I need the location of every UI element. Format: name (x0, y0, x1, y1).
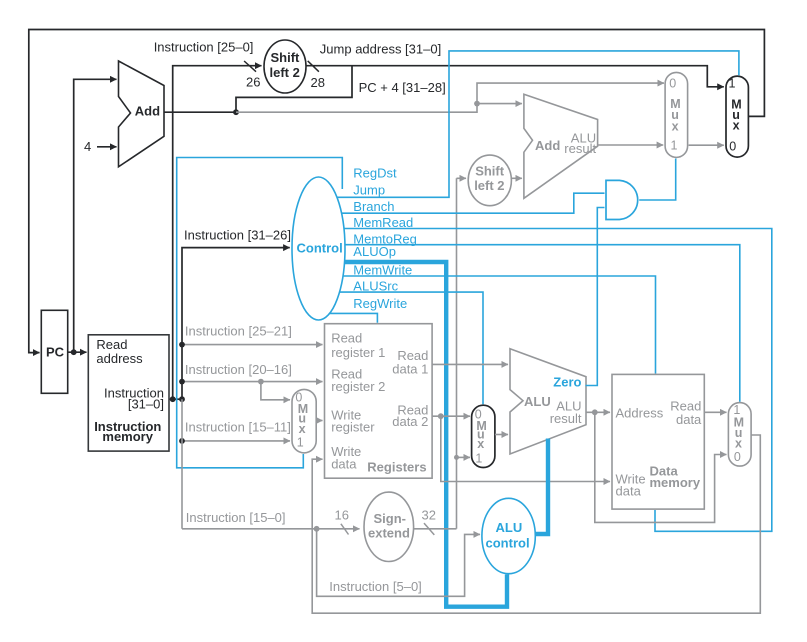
svg-text:left 2: left 2 (270, 65, 300, 80)
svg-text:Read: Read (331, 331, 362, 346)
svg-text:memory: memory (650, 475, 701, 490)
bus slash 28 (308, 61, 319, 72)
wire: sign-extend output (414, 528, 457, 530)
svg-text:address: address (96, 351, 143, 366)
svg-text:Control: Control (297, 240, 343, 255)
svg-text:MemWrite: MemWrite (353, 263, 412, 278)
control output MemtoReg (345, 245, 740, 402)
wire: sign-extend up to shift-left-2 (457, 145, 724, 529)
control output ALUOp (2-bit, thick) (345, 262, 507, 607)
ALU control oval (482, 498, 535, 573)
bus slash 16 (341, 524, 349, 535)
svg-text:MemRead: MemRead (353, 215, 413, 230)
wire: PC to instruction memory read address (68, 351, 87, 353)
svg-text:ALUSrc: ALUSrc (353, 279, 398, 294)
wire: PC up to Add input (74, 79, 117, 352)
svg-text:Branch: Branch (353, 199, 394, 214)
svg-text:0: 0 (669, 77, 676, 91)
wire: Instruction[15-11] to write-reg mux input 1 (182, 440, 290, 442)
wire: Instruction[20-16] to read register 2 (182, 381, 323, 383)
svg-text:ALU: ALU (496, 520, 523, 535)
wire: instruction bus down segment (181, 399, 183, 529)
svg-text:Zero: Zero (553, 374, 581, 389)
svg-text:[31–0]: [31–0] (128, 396, 164, 411)
wire: AND output to branch mux select (639, 159, 676, 201)
bus slash 26 (244, 61, 256, 72)
wire: Zero to AND gate (586, 208, 605, 386)
wire: ALU control output to ALU (thick) (535, 439, 548, 535)
registers box (325, 324, 433, 479)
svg-text:x: x (733, 119, 740, 133)
svg-text:Instruction [31–26]: Instruction [31–26] (184, 228, 291, 243)
svg-text:result: result (564, 141, 596, 156)
bus slash 32 (424, 523, 434, 535)
adder Add (PC+4) (119, 61, 165, 167)
svg-text:data: data (676, 412, 702, 427)
control unit oval (292, 177, 345, 320)
svg-text:data 2: data 2 (392, 414, 428, 429)
AND gate (branch) (606, 180, 638, 219)
svg-text:Read: Read (96, 337, 127, 352)
control output Jump (337, 51, 739, 197)
svg-text:28: 28 (311, 75, 325, 90)
svg-text:32: 32 (422, 508, 436, 523)
svg-text:x: x (672, 119, 679, 133)
svg-text:x: x (477, 437, 484, 451)
wire: memtoreg mux output back to registers write data (312, 435, 760, 613)
wire: read data 2 down to data memory write data (441, 416, 610, 481)
svg-text:data 1: data 1 (392, 361, 428, 376)
control output MemRead (344, 229, 772, 532)
wire: ALU result to data memory address (586, 411, 610, 413)
svg-text:ALU: ALU (524, 394, 551, 409)
wire: ALU mux output to ALU (495, 434, 508, 436)
svg-text:PC + 4 [31–28]: PC + 4 [31–28] (359, 80, 446, 95)
svg-text:register: register (331, 419, 375, 434)
svg-text:ALUOp: ALUOp (353, 244, 396, 259)
instruction memory box (88, 335, 169, 451)
wire: instruction memory output stub (169, 398, 182, 400)
wire: Instruction[5-0] to ALU control (317, 529, 480, 597)
svg-text:control: control (486, 536, 530, 551)
wire: sign-extend branch to ALU mux input 1 (457, 456, 471, 458)
wire: jump address to jump mux (306, 66, 724, 87)
svg-text:PC: PC (46, 345, 65, 360)
svg-text:1: 1 (671, 138, 678, 152)
wire: shift-left-2 to branch adder (511, 177, 522, 179)
control output ALUSrc (340, 292, 484, 404)
ALU (510, 349, 586, 454)
svg-text:4: 4 (84, 139, 91, 154)
svg-text:RegWrite: RegWrite (353, 296, 407, 311)
node: PC+4 junction (233, 109, 239, 115)
svg-text:result: result (550, 411, 582, 426)
svg-text:RegDst: RegDst (353, 166, 397, 181)
PC register (41, 310, 67, 393)
node: PC+4 branch junction (474, 101, 480, 107)
svg-text:memory: memory (102, 429, 153, 444)
svg-text:Add: Add (535, 138, 560, 153)
wire: jump-mux output to PC (top/left frame) (29, 30, 765, 353)
wire: PC+4[31-28] up to jump address merge (236, 66, 352, 113)
svg-text:16: 16 (335, 507, 349, 522)
control output RegWrite (330, 313, 378, 322)
node: bus junctions (170, 396, 176, 402)
svg-text:register 2: register 2 (331, 379, 385, 394)
svg-text:Add: Add (135, 104, 160, 119)
svg-text:extend: extend (368, 526, 410, 541)
svg-text:left 2: left 2 (474, 178, 504, 193)
data memory box (612, 374, 704, 509)
wire: instruction[31-26] into control (182, 248, 290, 400)
wire: Add output to junction (164, 111, 236, 113)
wire: constant 4 into Add (97, 146, 117, 148)
svg-text:data: data (616, 484, 642, 499)
svg-text:Instruction [5–0]: Instruction [5–0] (329, 579, 422, 594)
wire: ALU result bypass to memtoreg mux input 0 (595, 412, 727, 522)
shifter Shift left 2 (jump) (264, 40, 306, 93)
svg-text:0: 0 (734, 450, 741, 464)
control output Branch (341, 193, 604, 213)
svg-text:Instruction [20–16]: Instruction [20–16] (185, 362, 292, 377)
wire: read data to memtoreg mux input 1 (704, 411, 726, 413)
node: PC output junction (71, 349, 77, 355)
svg-text:Jump: Jump (353, 182, 385, 197)
svg-text:x: x (299, 422, 306, 436)
svg-text:Shift: Shift (475, 164, 505, 179)
svg-text:data: data (331, 457, 357, 472)
svg-text:Instruction [25–0]: Instruction [25–0] (154, 40, 254, 55)
mux: memtoreg mux (1/0) (728, 403, 751, 467)
wire: read data 1 to ALU (432, 363, 508, 365)
svg-text:Address: Address (616, 405, 664, 420)
svg-text:26: 26 (246, 74, 260, 89)
svg-text:1: 1 (475, 452, 482, 466)
wire: Instruction[20-16] branch down to write-reg mux input 0 (261, 382, 290, 400)
wire: Instruction[25-0] from bus up to shift-left-2 (173, 66, 262, 400)
mux: ALU source mux (0/1) (472, 405, 495, 467)
wire: branch mux output to jump mux (689, 144, 724, 146)
control output MemWrite (343, 276, 656, 374)
mux: write register mux (0/1) (292, 389, 316, 453)
wire: branch adder output to branch mux (598, 144, 664, 146)
svg-text:1: 1 (729, 76, 736, 90)
wire: read data 2 to ALU mux input 0 (432, 415, 470, 417)
svg-text:register 1: register 1 (331, 345, 385, 360)
mux: jump mux (1/0) (726, 76, 748, 157)
svg-text:Instruction [15–0]: Instruction [15–0] (186, 510, 286, 525)
svg-text:Instruction [25–21]: Instruction [25–21] (185, 324, 292, 339)
svg-text:x: x (735, 436, 742, 450)
svg-text:Jump address [31–0]: Jump address [31–0] (320, 42, 441, 57)
svg-text:Shift: Shift (271, 50, 301, 65)
svg-text:0: 0 (729, 140, 736, 154)
control output RegDst (177, 158, 343, 468)
svg-text:Sign-: Sign- (374, 511, 407, 526)
wire: Instruction[15-0] to sign-extend (182, 528, 360, 530)
wire: Instruction[25-21] to read register 1 (182, 344, 323, 346)
wire: PC+4 gray to branch adder and branch mux (236, 83, 664, 112)
adder Add (branch target) (524, 94, 598, 198)
shifter Shift left 2 (branch) (468, 155, 511, 206)
svg-text:Instruction [15–11]: Instruction [15–11] (185, 420, 291, 435)
wire: write-reg mux output (316, 420, 322, 422)
sign extend oval (364, 492, 414, 561)
svg-text:Registers: Registers (367, 460, 426, 475)
mux: branch mux (0/1) (665, 72, 688, 157)
svg-text:1: 1 (297, 435, 304, 449)
